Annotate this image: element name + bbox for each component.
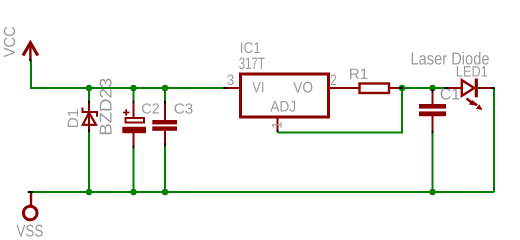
pin 2 stub VO and R1 left lead [330,87,359,89]
svg-text:D1: D1 [65,109,82,129]
resistor R1 [360,84,402,94]
junction bottom rail at C1 [429,189,436,196]
wire ADJ feedback run [278,88,403,133]
pin tick D1 top [88,101,90,104]
junction R1 output to ADJ feedback [399,85,406,92]
svg-text:VI: VI [252,80,264,97]
pin tick LED1 anode [444,87,448,89]
pin tick D1 bottom [88,129,90,132]
wire D1 bottom drop [88,132,90,192]
svg-text:BZD23: BZD23 [97,78,116,136]
pin tick VSS [28,191,33,193]
pin tick C1 bottom [432,130,434,133]
svg-text:C3: C3 [174,101,194,117]
wire C3 bottom drop [164,146,166,192]
pin tick VCC [29,59,31,62]
pin tick C2 top [133,101,135,104]
svg-text:LED1: LED1 [456,64,488,81]
wire right side drop LED cathode to VSS rail [493,88,495,192]
svg-text:1: 1 [269,121,285,129]
pin tick R1 right [399,87,403,89]
pin tick IC1 pin3 [223,87,226,89]
svg-text:2: 2 [330,72,337,89]
pin tick LED1 cathode [491,87,495,89]
polarized capacitor C2 [122,104,146,147]
wire C1 bottom drop [432,133,434,192]
svg-text:VSS: VSS [16,222,43,239]
svg-text:VO: VO [293,80,313,97]
junction top rail at D1 [86,85,93,92]
wire D1 top drop [88,88,90,101]
op-amp regulator IC1 body [241,74,329,117]
svg-text:317T: 317T [239,55,265,73]
capacitor C3 [152,104,177,145]
capacitor C1 [419,90,446,132]
wire bottom rail VSS net [30,191,494,193]
wire C2 bottom drop [133,148,135,192]
junction bottom rail at D1 [86,189,93,196]
junction top rail at C3 [162,85,169,92]
pin 3 stub VI [227,87,240,89]
pin tick IC1 pin1 [277,129,279,132]
wire C2 top drop [133,88,135,101]
wire rail right of R1 [402,87,445,89]
pin tick C1 top [432,90,434,93]
pin tick C2 bottom [133,146,135,149]
junction top rail at C2 [130,85,137,92]
junction bottom rail at C3 [162,189,169,196]
svg-text:VCC: VCC [2,26,19,57]
wire VCC riser and top rail VCC net [31,61,224,88]
svg-text:R1: R1 [349,66,369,83]
junction top rail at C1 [429,85,436,92]
svg-text:C2: C2 [141,101,160,117]
pin 1 stub ADJ [277,117,279,130]
wire C3 top drop [164,88,166,101]
pin tick C3 bottom [164,143,166,146]
supply symbol VSS circle [23,193,37,220]
junction bottom rail at C2 [130,189,137,196]
zener diode D1 [83,103,98,130]
LED1 emission arrow 1 [467,99,476,106]
supply symbol VCC arrow [23,43,38,59]
laser diode LED1 [448,79,492,98]
svg-text:ADJ: ADJ [270,99,296,116]
LED1 emission arrow 2 [472,102,483,111]
pin tick C3 top [164,101,166,104]
svg-text:3: 3 [227,72,234,89]
